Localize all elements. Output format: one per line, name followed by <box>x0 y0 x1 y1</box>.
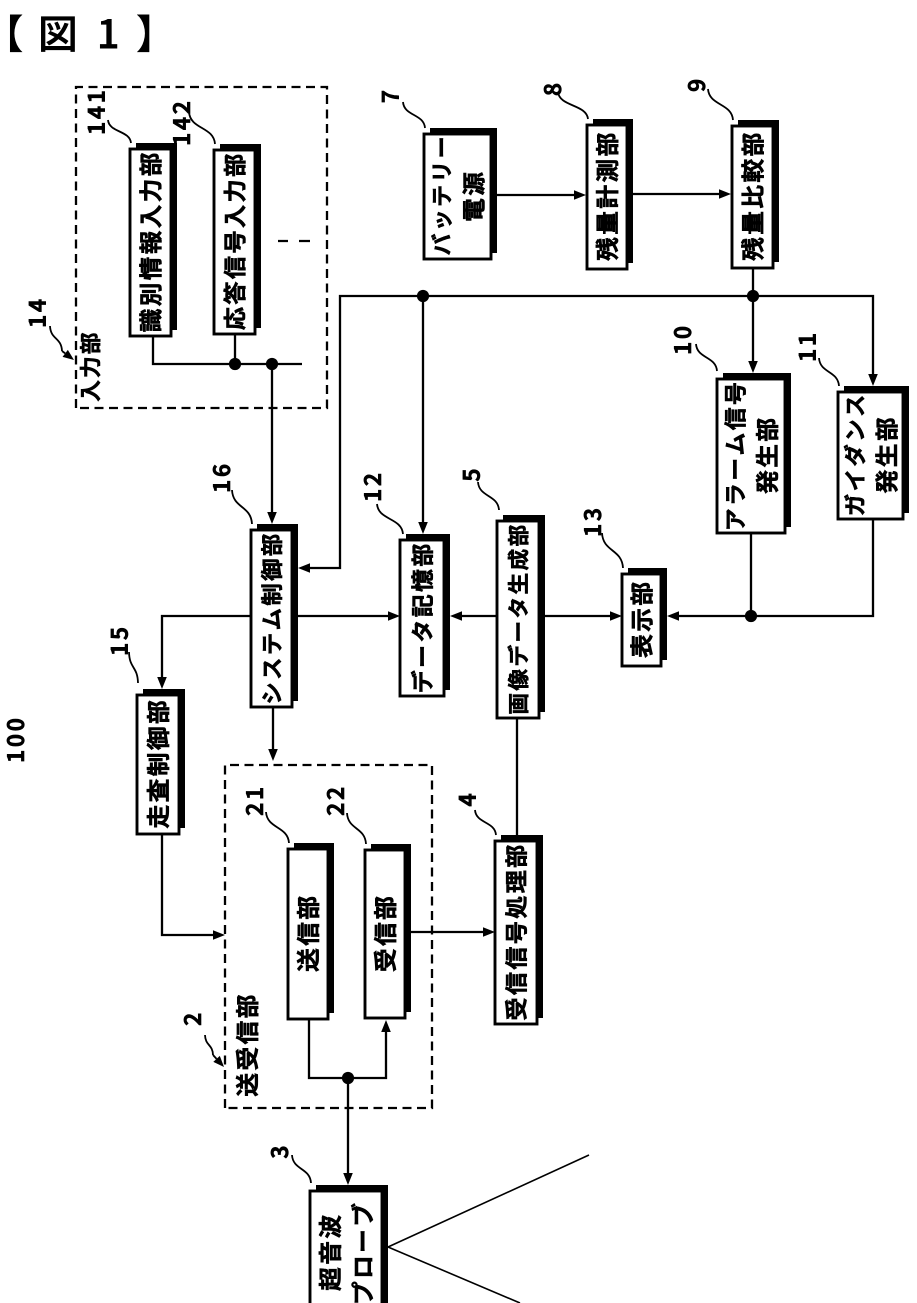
ref 3 <box>271 1147 288 1158</box>
label 送受信部 (transceiver section) <box>236 995 258 1096</box>
wire system control 16 to data memory 12 <box>292 611 400 621</box>
wire gauge 8 to comparator 9 <box>627 189 731 199</box>
box 8 remaining-charge gauge <box>587 119 633 269</box>
leader 16 <box>232 490 252 524</box>
wire junction to probe 3 <box>343 1078 353 1185</box>
leader 4 <box>475 810 496 835</box>
wire alarm 10 branch <box>750 533 752 616</box>
box 21 transmitter <box>288 843 334 1019</box>
ref 11 <box>799 334 816 360</box>
leader 3 <box>292 1155 311 1183</box>
wire signal processor 4 to image generator 5 <box>516 718 518 841</box>
wire battery 7 to gauge 8 <box>497 190 586 200</box>
box 15 scan control <box>137 689 185 834</box>
ref 141 <box>88 92 105 133</box>
ref 15 <box>111 628 128 654</box>
ellipsis dashes below box 142 <box>278 240 310 242</box>
ref 22 <box>327 788 344 815</box>
wire power rail to system control 16, memory 12, guidance 11 <box>298 290 878 573</box>
box 11 guidance generator <box>838 386 909 519</box>
leader 142 <box>189 112 215 144</box>
ref 14 <box>29 300 46 326</box>
ref 100 <box>7 719 24 761</box>
ref 21 <box>246 788 263 815</box>
ref 142 <box>173 102 190 144</box>
box 16 system control <box>251 524 298 707</box>
ref 13 <box>584 509 601 535</box>
leader 2 with arrow <box>205 1035 224 1067</box>
ref 8 <box>544 84 561 95</box>
wire rail branch to data memory 12 <box>418 296 428 534</box>
box 13 display <box>622 568 667 666</box>
leader 5 <box>478 482 499 510</box>
ref 5 <box>463 470 480 481</box>
leader 8 <box>558 92 588 119</box>
box 7 battery power <box>424 128 497 259</box>
box 5 image data generator <box>497 515 545 718</box>
leader 15 <box>129 652 138 683</box>
wire scan control 15 to transceiver box 2 <box>162 833 225 940</box>
ref 2 <box>184 1014 201 1025</box>
wire system control 16 to scan control 15 <box>157 616 251 689</box>
ref 4 <box>459 794 476 806</box>
leader 14 with arrow <box>50 326 74 360</box>
leader 9 <box>708 89 733 120</box>
leader 12 <box>377 504 403 534</box>
leader 7 <box>403 102 425 128</box>
wire image generator 5 to data memory 12 <box>450 611 497 621</box>
leader 22 <box>347 813 366 844</box>
wire alarm 10 / guidance 11 to display 13 <box>667 519 873 622</box>
ultrasound beam lines from probe 3 <box>388 1155 589 1303</box>
ref 10 <box>674 327 691 353</box>
wire input bus to system control 16 <box>267 364 277 524</box>
leader 13 <box>602 533 623 568</box>
leader 21 <box>266 812 289 843</box>
wire comparator 9 to alarm 10 with junction <box>747 268 759 373</box>
wire input 142 branch <box>234 334 236 364</box>
box 142 response signal input <box>214 144 261 334</box>
box 12 data memory <box>400 534 450 696</box>
ref 16 <box>213 465 230 491</box>
box 22 receiver <box>365 844 411 1018</box>
box 9 remaining-charge comparator <box>732 120 779 268</box>
box 10 alarm signal generator <box>717 373 791 533</box>
dashed group box 2 (transceiver section) <box>225 765 432 1108</box>
ref 7 <box>382 91 399 102</box>
leader 141 <box>108 120 131 143</box>
figure header 【図 1】 <box>10 14 149 52</box>
wire input 141/142 merge bus <box>153 336 302 370</box>
ref 9 <box>688 80 705 91</box>
wire system control 16 to transceiver box 2 <box>268 707 278 761</box>
box 141 identification info input <box>130 143 177 336</box>
wire image generator 5 to display 13 <box>539 611 622 621</box>
ref 12 <box>364 474 381 500</box>
label 入力部 (input section) <box>80 333 100 401</box>
leader 10 <box>696 344 717 371</box>
box 4 received-signal processor <box>495 835 543 1024</box>
wire transmitter 21 / receiver 22 loop <box>309 1019 391 1084</box>
dashed group box 14 (input section) <box>76 87 327 408</box>
wire receiver 22 to signal processor 4 <box>411 927 495 937</box>
leader 11 <box>819 358 839 386</box>
box 3 ultrasound probe <box>310 1185 388 1303</box>
